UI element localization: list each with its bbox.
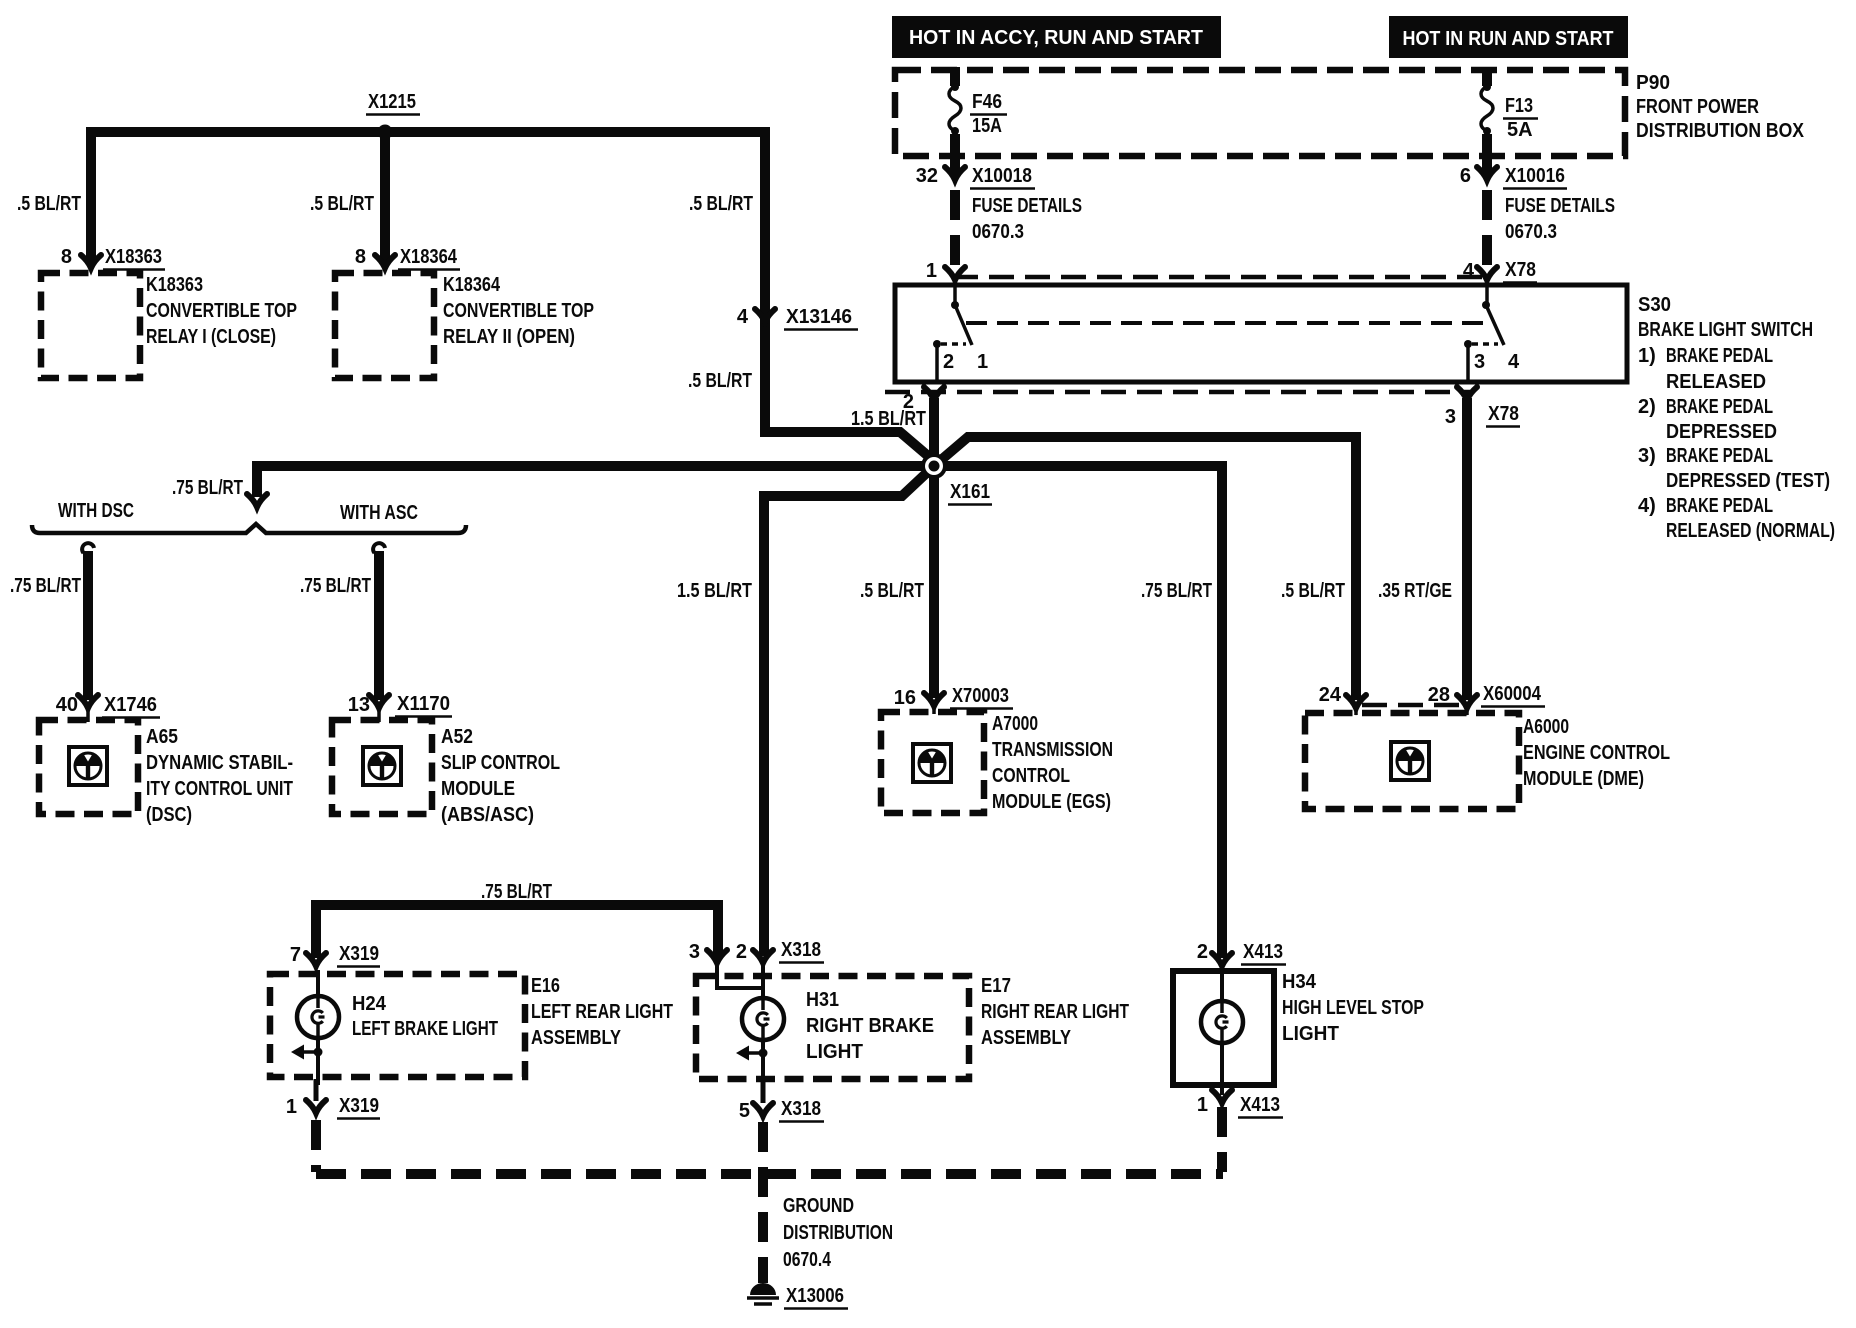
wire fuse F13 to connector X10016 [1482, 156, 1492, 176]
H34 label [1282, 971, 1424, 1045]
svg-text:RIGHT BRAKE: RIGHT BRAKE [806, 1015, 934, 1037]
svg-text:4: 4 [1508, 351, 1520, 373]
svg-text:3: 3 [1445, 406, 1456, 428]
svg-text:S30: S30 [1638, 294, 1671, 316]
connector X78 pin 4 [1463, 259, 1537, 283]
svg-text:X161: X161 [950, 481, 990, 503]
svg-text:X318: X318 [781, 939, 821, 961]
svg-text:X18364: X18364 [400, 246, 458, 268]
svg-text:X319: X319 [339, 943, 379, 965]
S30 right switch pin 4 contact [1482, 280, 1490, 309]
power label HOT IN ACCY, RUN AND START [892, 16, 1221, 58]
svg-text:16: 16 [894, 687, 916, 709]
A52 label [441, 726, 560, 826]
connector X18364 pin 8 [355, 246, 460, 270]
svg-text:ENGINE CONTROL: ENGINE CONTROL [1523, 742, 1670, 764]
svg-text:F13: F13 [1505, 95, 1533, 117]
svg-text:X319: X319 [339, 1095, 379, 1117]
S30 pin 2 connector below [851, 387, 944, 430]
feed arrow to DSC/ASC bracket [247, 494, 267, 507]
svg-text:8: 8 [61, 246, 72, 268]
rear light assembly E16 box [270, 974, 525, 1077]
connector X413 pin 2 [1197, 941, 1286, 966]
fuse F46 15A [949, 67, 1007, 156]
svg-text:.75 BL/RT: .75 BL/RT [300, 575, 371, 597]
svg-text:BRAKE PEDAL: BRAKE PEDAL [1666, 445, 1773, 467]
svg-text:BRAKE PEDAL: BRAKE PEDAL [1666, 345, 1773, 367]
svg-text:A52: A52 [441, 726, 473, 748]
A7000 label [992, 713, 1113, 813]
svg-text:7: 7 [290, 944, 301, 966]
svg-text:P90: P90 [1636, 72, 1670, 94]
svg-text:28: 28 [1428, 684, 1450, 706]
svg-text:X1215: X1215 [368, 91, 416, 113]
svg-text:MODULE (DME): MODULE (DME) [1523, 768, 1644, 790]
svg-text:A7000: A7000 [992, 713, 1038, 735]
svg-text:3: 3 [1474, 351, 1485, 373]
svg-text:X413: X413 [1240, 1094, 1280, 1116]
svg-text:FUSE DETAILS: FUSE DETAILS [972, 195, 1082, 217]
svg-text:HOT IN RUN AND START: HOT IN RUN AND START [1403, 28, 1614, 50]
svg-text:E16: E16 [531, 975, 560, 997]
H31 right brake light bulb [717, 966, 784, 1087]
control unit A65 box [39, 720, 138, 814]
svg-text:HOT IN ACCY, RUN AND START: HOT IN ACCY, RUN AND START [909, 27, 1203, 49]
svg-text:X78: X78 [1505, 259, 1536, 281]
control module A6000 box [1305, 713, 1519, 809]
K18364 label [443, 274, 594, 348]
H24 left brake light bulb [291, 970, 339, 1085]
svg-text:DYNAMIC STABIL-: DYNAMIC STABIL- [146, 752, 293, 774]
dashed ground distribution bus [316, 1169, 1223, 1179]
S30 mechanical link dashed [966, 321, 1491, 325]
svg-text:ITY CONTROL UNIT: ITY CONTROL UNIT [146, 778, 293, 800]
node X1215 [366, 91, 420, 140]
svg-text:1: 1 [926, 260, 937, 282]
svg-text:LIGHT: LIGHT [1282, 1023, 1339, 1045]
wire X161 horizontal left branch .75 BL/RT [257, 466, 934, 497]
svg-text:RELAY I (CLOSE): RELAY I (CLOSE) [146, 326, 276, 348]
svg-text:6: 6 [1460, 165, 1471, 187]
svg-text:X13006: X13006 [786, 1285, 844, 1307]
wire X161 upper-right branch to DME pin 24 [934, 437, 1356, 700]
dashed wire to fuse details [1482, 190, 1492, 272]
svg-text:H34: H34 [1282, 971, 1317, 993]
E17 label [981, 975, 1129, 1049]
wire bracket to ASC module [373, 543, 385, 700]
svg-text:.5 BL/RT: .5 BL/RT [1281, 580, 1345, 602]
connector X413 pin 1 [1197, 1090, 1283, 1118]
svg-text:2: 2 [943, 351, 954, 373]
rear light assembly E17 box [696, 976, 969, 1079]
svg-text:.75 BL/RT: .75 BL/RT [481, 881, 552, 903]
svg-text:5A: 5A [1507, 119, 1533, 141]
dashed ground wire from X319 pin 1 [314, 1079, 319, 1101]
svg-text:1: 1 [286, 1096, 297, 1118]
connector X10018 pin 32 [916, 165, 1035, 189]
svg-text:WITH DSC: WITH DSC [58, 500, 134, 522]
svg-text:X1170: X1170 [397, 693, 450, 715]
K18363 label [146, 274, 297, 348]
S30 pin labels 2 1 [943, 351, 988, 373]
H31 label [806, 989, 934, 1063]
wire X161 down to EGS pin 16 [929, 466, 939, 698]
svg-text:RELEASED: RELEASED [1666, 371, 1766, 393]
svg-text:FRONT POWER: FRONT POWER [1636, 96, 1759, 118]
svg-text:1: 1 [1197, 1094, 1208, 1116]
svg-text:.5 BL/RT: .5 BL/RT [860, 580, 924, 602]
wire fuse F46 to connector X10018 [950, 156, 960, 176]
svg-text:H24: H24 [352, 993, 387, 1015]
power label HOT IN RUN AND START [1389, 16, 1628, 58]
S30 left pin 2 contact [933, 340, 966, 382]
wire upper-left into junction X161 [765, 432, 934, 461]
svg-text:.5 BL/RT: .5 BL/RT [17, 193, 81, 215]
connector X10016 pin 6 [1460, 165, 1567, 189]
svg-text:BRAKE PEDAL: BRAKE PEDAL [1666, 396, 1773, 418]
wire .75 BL/RT between X318 pin 3 and X319 pin 7 [316, 905, 718, 958]
connector X319 pin 7 [290, 943, 380, 967]
svg-text:0670.4: 0670.4 [783, 1249, 832, 1271]
fuse details reference [1505, 195, 1615, 243]
svg-text:8: 8 [355, 246, 366, 268]
svg-text:5: 5 [739, 1100, 750, 1122]
connector X319 pin 1 [286, 1095, 380, 1119]
S30 right pin 3 contact [1464, 340, 1498, 382]
svg-text:3: 3 [689, 941, 700, 963]
svg-text:A6000: A6000 [1523, 716, 1569, 738]
dashed wire to fuse details [950, 190, 960, 272]
svg-text:X10018: X10018 [972, 165, 1032, 187]
connector X70003 pin 16 [894, 685, 1013, 709]
svg-text:ASSEMBLY: ASSEMBLY [531, 1027, 622, 1049]
svg-text:X78: X78 [1488, 403, 1519, 425]
H24 label [352, 993, 498, 1040]
svg-text:HIGH LEVEL STOP: HIGH LEVEL STOP [1282, 997, 1424, 1019]
svg-text:F46: F46 [972, 91, 1002, 113]
svg-text:H31: H31 [806, 989, 839, 1011]
connector X318 pins 3 2 [689, 939, 824, 963]
connector X1746 pin 40 [56, 694, 160, 718]
dashed connector line below S30 [885, 390, 1470, 395]
svg-text:.5 BL/RT: .5 BL/RT [689, 193, 753, 215]
junction node X161 [921, 453, 992, 505]
svg-text:X18363: X18363 [105, 246, 162, 268]
E16 label [531, 975, 673, 1049]
svg-text:ASSEMBLY: ASSEMBLY [981, 1027, 1072, 1049]
svg-text:CONTROL: CONTROL [992, 765, 1070, 787]
P90 label [1636, 72, 1805, 142]
svg-text:15A: 15A [972, 115, 1002, 137]
wire S30 pin 2 down to X161 [929, 398, 939, 466]
control module A52 box [332, 720, 432, 814]
wire bracket to DSC unit [82, 543, 94, 700]
svg-text:A65: A65 [146, 726, 178, 748]
svg-text:X70003: X70003 [952, 685, 1009, 707]
svg-text:X1746: X1746 [104, 694, 157, 716]
svg-text:RELAY II (OPEN): RELAY II (OPEN) [443, 326, 575, 348]
svg-text:4): 4) [1638, 495, 1656, 517]
bracket WITH DSC / WITH ASC [32, 500, 466, 533]
svg-text:.35 RT/GE: .35 RT/GE [1378, 580, 1452, 602]
svg-text:LEFT BRAKE LIGHT: LEFT BRAKE LIGHT [352, 1018, 498, 1040]
svg-text:K18364: K18364 [443, 274, 501, 296]
svg-text:.5 BL/RT: .5 BL/RT [688, 370, 752, 392]
svg-text:LEFT REAR LIGHT: LEFT REAR LIGHT [531, 1001, 673, 1023]
svg-text:TRANSMISSION: TRANSMISSION [992, 739, 1113, 761]
ground distribution label [783, 1195, 893, 1271]
wire X161 right branch to H34 [934, 466, 1222, 958]
svg-text:.75 BL/RT: .75 BL/RT [172, 477, 243, 499]
svg-text:X318: X318 [781, 1098, 821, 1120]
svg-text:DEPRESSED: DEPRESSED [1666, 421, 1777, 443]
svg-text:DISTRIBUTION: DISTRIBUTION [783, 1222, 893, 1244]
connector X13146 pin 4 [737, 306, 858, 330]
control module A7000 box [881, 712, 984, 813]
dashed ground wire from X318 pin 5 [761, 1081, 766, 1103]
svg-text:X13146: X13146 [786, 306, 852, 328]
svg-text:CONVERTIBLE TOP: CONVERTIBLE TOP [146, 300, 297, 322]
S30 right switch lever [1486, 305, 1504, 345]
svg-text:0670.3: 0670.3 [972, 221, 1024, 243]
svg-text:.75 BL/RT: .75 BL/RT [10, 575, 81, 597]
svg-text:K18363: K18363 [146, 274, 203, 296]
S30 pin 3 connector X78 below [1445, 387, 1520, 428]
dashed ground wire from X413 pin 1 [1220, 1085, 1224, 1095]
svg-text:DISTRIBUTION BOX: DISTRIBUTION BOX [1636, 120, 1805, 142]
svg-text:32: 32 [916, 165, 938, 187]
svg-text:GROUND: GROUND [783, 1195, 854, 1217]
svg-text:2: 2 [736, 941, 747, 963]
svg-text:4: 4 [737, 306, 749, 328]
svg-text:1.5 BL/RT: 1.5 BL/RT [851, 408, 926, 430]
svg-text:X60004: X60004 [1483, 683, 1542, 705]
svg-text:FUSE DETAILS: FUSE DETAILS [1505, 195, 1615, 217]
wire X1215 to relay II [380, 137, 390, 262]
svg-text:2: 2 [1197, 941, 1208, 963]
wire X1215 distribution [91, 132, 765, 437]
high level stop light H34 box [1173, 968, 1274, 1085]
svg-text:LIGHT: LIGHT [806, 1041, 863, 1063]
svg-text:SLIP CONTROL: SLIP CONTROL [441, 752, 560, 774]
svg-text:DEPRESSED (TEST): DEPRESSED (TEST) [1666, 470, 1830, 492]
S30 pin labels 3 4 [1474, 351, 1520, 373]
svg-text:0670.3: 0670.3 [1505, 221, 1557, 243]
svg-text:WITH ASC: WITH ASC [340, 502, 418, 524]
S30 left switch lever [955, 305, 972, 345]
dashed connector line above S30 [953, 275, 1489, 280]
A65 label [146, 726, 293, 826]
svg-text:BRAKE PEDAL: BRAKE PEDAL [1666, 495, 1773, 517]
svg-text:1): 1) [1638, 345, 1656, 367]
svg-text:1.5 BL/RT: 1.5 BL/RT [677, 580, 752, 602]
relay K18364 box [335, 273, 434, 378]
A6000 label [1523, 716, 1670, 790]
svg-text:CONVERTIBLE TOP: CONVERTIBLE TOP [443, 300, 594, 322]
connector X318 pin 5 [739, 1098, 824, 1122]
pin 1 into brake light switch [926, 260, 965, 282]
svg-text:.5 BL/RT: .5 BL/RT [310, 193, 374, 215]
power distribution box P90 [895, 70, 1625, 156]
svg-text:E17: E17 [981, 975, 1011, 997]
svg-text:(ABS/ASC): (ABS/ASC) [441, 804, 534, 826]
svg-text:MODULE: MODULE [441, 778, 515, 800]
connector X18363 pin 8 [61, 246, 165, 270]
svg-text:2): 2) [1638, 396, 1656, 418]
wire X161 lower-left branch 1.5 BL/RT to H31 [764, 466, 934, 956]
svg-text:24: 24 [1319, 684, 1342, 706]
connector X60004 pins 24 28 [1319, 683, 1545, 708]
svg-text:RIGHT REAR LIGHT: RIGHT REAR LIGHT [981, 1001, 1129, 1023]
svg-text:RELEASED (NORMAL): RELEASED (NORMAL) [1666, 520, 1835, 542]
connector X1170 pin 13 [348, 693, 452, 717]
svg-text:(DSC): (DSC) [146, 804, 192, 826]
fuse F13 5A [1481, 67, 1538, 156]
relay K18363 box [41, 273, 140, 378]
svg-text:40: 40 [56, 694, 78, 716]
svg-text:.75 BL/RT: .75 BL/RT [1141, 580, 1212, 602]
S30 left switch pin 1 contact [951, 280, 959, 309]
wire S30 pin 3 down to DME pin 28 [1462, 398, 1472, 700]
svg-text:MODULE (EGS): MODULE (EGS) [992, 791, 1111, 813]
S30 label block [1638, 294, 1835, 542]
svg-text:BRAKE LIGHT SWITCH: BRAKE LIGHT SWITCH [1638, 319, 1813, 341]
svg-text:1: 1 [977, 351, 988, 373]
svg-text:X10016: X10016 [1505, 165, 1565, 187]
svg-text:3): 3) [1638, 445, 1656, 467]
ground X13006 [747, 1283, 848, 1309]
svg-text:X413: X413 [1243, 941, 1283, 963]
fuse details reference [972, 195, 1082, 243]
svg-text:13: 13 [348, 694, 370, 716]
brake light switch S30 box [895, 285, 1627, 382]
